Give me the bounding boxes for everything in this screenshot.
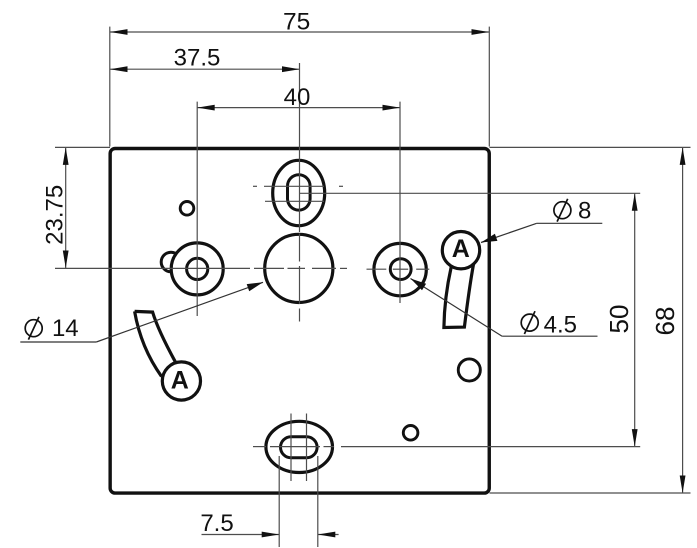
dim 50 ext line top (300, 192, 641, 194)
svg-text:75: 75 (283, 9, 310, 36)
dim 68 arrows (680, 147, 686, 165)
dim 68 ext line top (490, 146, 691, 148)
dim 37.5 arrows (110, 66, 128, 72)
dim 50 arrows (632, 193, 638, 211)
top slot outer oval (273, 160, 325, 225)
center hole Ø14 (265, 234, 333, 302)
dim 68 ext line bottom (490, 492, 691, 494)
top slot upper-arc centerline (253, 185, 257, 187)
left small lobe circle (161, 252, 181, 272)
small hole bottom-right (403, 426, 418, 441)
label Ø4.5 symbol (521, 314, 538, 331)
right counterbore horizontal centerline (367, 268, 387, 270)
right counterbore inner hole Ø4.5 (390, 259, 411, 280)
svg-text:A: A (171, 366, 189, 394)
dim 37.5 ext line center (299, 63, 301, 232)
keyhole A left tail (135, 311, 176, 376)
dim 23.75 ext + hole centerline (55, 267, 250, 269)
bottom slot inner obround (281, 437, 318, 458)
svg-text:7.5: 7.5 (200, 510, 233, 537)
label Ø8 leader (481, 223, 537, 242)
center hole vertical centerline (299, 234, 301, 262)
bottom slot outer oval (266, 421, 333, 472)
top slot inner obround (288, 175, 311, 210)
label Ø14 leader (96, 282, 263, 342)
dim 40 arrows (197, 105, 215, 111)
dim 50 ext line bottom + slot centerline (253, 446, 266, 448)
dim 75 arrows (110, 29, 128, 35)
dim 50 line (634, 193, 636, 446)
dim 75 line (110, 31, 489, 33)
keyhole A left balloon (162, 362, 200, 400)
left counterbore outer circle (171, 243, 223, 295)
label Ø4.5 arrow (411, 279, 427, 291)
svg-text:23.75: 23.75 (42, 185, 69, 245)
dim 23.75 ext line top (55, 146, 110, 148)
dim 7.5 ext line left (278, 456, 280, 547)
svg-text:8: 8 (578, 198, 591, 225)
dim 7.5 arrows (262, 532, 280, 538)
svg-text:50: 50 (604, 305, 634, 334)
dim 7.5 ext line right (317, 456, 319, 547)
svg-text:14: 14 (52, 315, 79, 342)
dim 23.75 line (65, 147, 67, 268)
dim 7.5 line segments (202, 534, 280, 536)
dim 40 line (197, 107, 400, 109)
label Ø8 arrow (481, 234, 497, 243)
left counterbore inner hole (187, 258, 208, 279)
label Ø8 symbol (554, 202, 571, 219)
svg-text:40: 40 (284, 84, 311, 111)
label Ø4.5 leader (411, 279, 503, 337)
label Ø14 arrow (247, 282, 263, 291)
dim 37.5 line (110, 68, 300, 70)
label Ø14 symbol (25, 320, 42, 337)
top slot lower-arc centerline (265, 200, 324, 202)
svg-text:4.5: 4.5 (544, 311, 577, 338)
bottom slot arc centerline left (290, 414, 292, 482)
label Ø14 shoulder line (20, 341, 96, 343)
keyhole A right tail (444, 264, 474, 327)
right counterbore outer circle (374, 243, 426, 295)
bottom slot arc centerline right (306, 414, 308, 482)
svg-text:68: 68 (650, 307, 680, 336)
keyhole A right balloon (442, 232, 479, 269)
dim 23.75 arrows (63, 147, 69, 165)
plate outline (110, 149, 489, 494)
small hole top-left (180, 202, 194, 216)
dim 75 ext line left (109, 27, 111, 147)
dim 75 ext line right (488, 27, 490, 147)
svg-text:37.5: 37.5 (174, 45, 221, 72)
dim 40 ext line right (399, 102, 401, 303)
dim 40 ext line left (196, 102, 198, 316)
dim 68 line (682, 147, 684, 493)
label Ø8 shoulder line (537, 222, 603, 224)
svg-text:A: A (452, 235, 470, 263)
label Ø4.5 shoulder line (502, 335, 597, 337)
small hole mid-right (458, 359, 480, 381)
